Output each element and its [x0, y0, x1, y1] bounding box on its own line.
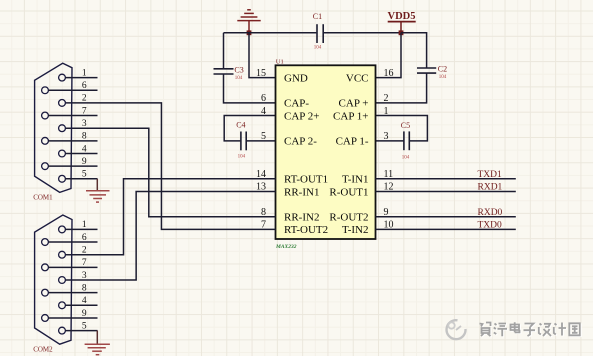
wire IC pin 14 to COM2 pin 2 [65, 179, 275, 255]
svg-text:C2: C2 [438, 65, 447, 74]
COM2 pin 6 [42, 233, 98, 246]
svg-text:8: 8 [82, 283, 87, 293]
COM2 pin 9 [42, 309, 98, 322]
IC U1 left pin numbers [256, 68, 266, 231]
svg-text:C1: C1 [313, 12, 322, 21]
svg-text:COM2: COM2 [33, 345, 53, 353]
wire IC pin 1 to C5 [376, 116, 428, 141]
ground COM1 [86, 179, 110, 202]
svg-text:RXD0: RXD0 [478, 208, 503, 218]
capacitor C2 [417, 65, 447, 81]
COM1 pin 8 [42, 132, 98, 145]
capacitor C4 [236, 121, 246, 160]
svg-text:16: 16 [384, 68, 394, 79]
svg-text:MAX232: MAX232 [275, 244, 297, 250]
wire C5 to IC pin 3 [376, 140, 404, 142]
COM2 pin 3 [59, 271, 87, 284]
svg-text:5: 5 [82, 170, 87, 180]
svg-text:15: 15 [256, 68, 266, 79]
COM1 pin 7 [42, 106, 98, 119]
svg-text:COM1: COM1 [33, 194, 53, 202]
svg-text:6: 6 [82, 81, 87, 91]
svg-text:RR-IN2: RR-IN2 [284, 212, 319, 224]
svg-text:CAP +: CAP + [339, 98, 369, 110]
svg-text:4: 4 [82, 296, 87, 306]
svg-text:2: 2 [384, 93, 389, 104]
svg-text:4: 4 [261, 106, 266, 117]
svg-text:1: 1 [384, 106, 389, 117]
svg-text:3: 3 [82, 119, 87, 129]
wire VDD junction to C2 [401, 33, 427, 68]
capacitor C1 [313, 12, 323, 50]
watermark text 贸泽电子设计圈 [480, 322, 581, 337]
svg-text:CAP 1+: CAP 1+ [333, 110, 368, 122]
svg-text:4: 4 [82, 144, 87, 154]
svg-text:7: 7 [82, 106, 87, 116]
IC U1 left pin names [284, 72, 328, 236]
svg-text:TXD0: TXD0 [478, 221, 503, 231]
wire VDD junction down to IC pin 16 [376, 33, 402, 78]
svg-text:GND: GND [284, 72, 308, 84]
COM1 pin 2 [59, 94, 87, 107]
svg-text:5: 5 [261, 131, 266, 142]
connector COM1 outline [35, 63, 72, 192]
wire gnd rail left segment [224, 32, 317, 34]
svg-text:RXD1: RXD1 [478, 183, 503, 193]
svg-text:9: 9 [82, 157, 87, 167]
IC U1 right pin numbers [384, 68, 394, 231]
svg-text:TXD1: TXD1 [478, 170, 503, 180]
COM2 pin 2 [59, 246, 87, 259]
COM1 pin 9 [42, 157, 98, 170]
ground symbol top [237, 10, 260, 33]
svg-text:C3: C3 [234, 65, 243, 74]
svg-text:T-IN2: T-IN2 [342, 224, 368, 236]
svg-text:CAP 1-: CAP 1- [336, 136, 369, 148]
capacitor C5 [401, 121, 410, 161]
connector COM2 outline [35, 215, 72, 344]
wire C2 to IC pin 2 [376, 73, 427, 103]
wire C3 to IC pin 6 [224, 74, 276, 103]
svg-text:CAP-: CAP- [284, 98, 309, 110]
svg-text:7: 7 [82, 258, 87, 268]
svg-text:RT-OUT1: RT-OUT1 [284, 174, 328, 186]
wire IC pin 9 [376, 216, 516, 218]
svg-text:1: 1 [82, 220, 87, 230]
svg-text:104: 104 [402, 156, 410, 161]
svg-text:2: 2 [82, 94, 87, 104]
wire gnd junction down to IC pin 15 [249, 33, 276, 78]
svg-text:5: 5 [82, 321, 87, 331]
COM1 pin 3 [59, 119, 87, 132]
svg-text:C4: C4 [236, 121, 245, 130]
svg-text:104: 104 [238, 155, 246, 160]
svg-text:9: 9 [82, 309, 87, 319]
svg-text:8: 8 [82, 132, 87, 142]
svg-text:RT-OUT2: RT-OUT2 [284, 224, 328, 236]
COM1 pin 1 [59, 68, 98, 81]
COM1 pin 4 [59, 144, 98, 157]
COM2 pin 7 [42, 258, 98, 271]
capacitor C3 [214, 65, 244, 80]
IC U1 body [276, 65, 376, 239]
wire C4 to IC pin 5 [247, 140, 276, 142]
svg-text:1: 1 [82, 68, 87, 78]
wire gnd rail right segment [324, 32, 401, 34]
wire COM1 pin 2 to IC pin 7 [65, 103, 275, 229]
svg-text:VDD5: VDD5 [388, 11, 416, 22]
COM2 pin 8 [42, 283, 98, 296]
svg-text:104: 104 [235, 76, 243, 81]
COM1 pin 6 [42, 81, 98, 94]
svg-text:CAP 2-: CAP 2- [284, 136, 317, 148]
svg-text:C5: C5 [401, 121, 410, 130]
junction dot at VDD5 [399, 30, 404, 35]
wire IC pin 10 [376, 228, 516, 230]
svg-text:R-OUT1: R-OUT1 [329, 186, 368, 198]
svg-text:VCC: VCC [346, 72, 369, 84]
wire IC pin 13 to COM2 pin 3 [65, 191, 275, 280]
COM2 pin 1 [59, 220, 98, 233]
svg-text:U1: U1 [276, 58, 284, 65]
wire IC pin 12 [376, 190, 516, 192]
svg-text:CAP 2+: CAP 2+ [284, 110, 319, 122]
COM2 pin 4 [59, 296, 98, 309]
svg-text:3: 3 [82, 271, 87, 281]
svg-text:T-IN1: T-IN1 [342, 174, 368, 186]
wire COM1 pin 3 to IC pin 8 [65, 128, 275, 217]
svg-text:6: 6 [82, 233, 87, 243]
svg-text:R-OUT2: R-OUT2 [329, 212, 368, 224]
power symbol VDD5 [388, 11, 416, 33]
ground COM2 [85, 331, 110, 355]
COM1 pin 5 [59, 170, 98, 183]
wire IC pin 11 [376, 178, 516, 180]
wire gnd rail down to C3 [223, 33, 225, 69]
junction dot at ground rail [247, 30, 252, 35]
svg-text:104: 104 [314, 46, 322, 51]
svg-text:6: 6 [261, 93, 266, 104]
COM2 pin 5 [59, 321, 98, 334]
IC U1 right pin names [329, 72, 368, 236]
svg-text:3: 3 [384, 131, 389, 142]
svg-text:RR-IN1: RR-IN1 [284, 186, 319, 198]
svg-text:2: 2 [82, 246, 87, 256]
wire IC pin 4 to C4 [224, 116, 275, 141]
watermark logo [447, 320, 466, 339]
svg-text:104: 104 [439, 75, 447, 80]
